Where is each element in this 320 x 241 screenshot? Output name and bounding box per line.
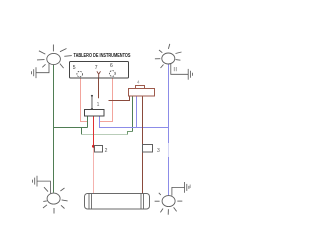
svg-text:3: 3	[157, 148, 160, 154]
svg-text:4: 4	[137, 80, 140, 85]
svg-text:7: 7	[95, 65, 98, 71]
svg-text:5: 5	[73, 65, 76, 71]
svg-text:1: 1	[97, 102, 100, 108]
svg-text:6: 6	[110, 63, 113, 69]
svg-text:2: 2	[105, 148, 108, 154]
svg-text:TABLERO DE INSTRUMENTOS: TABLERO DE INSTRUMENTOS	[74, 53, 131, 59]
